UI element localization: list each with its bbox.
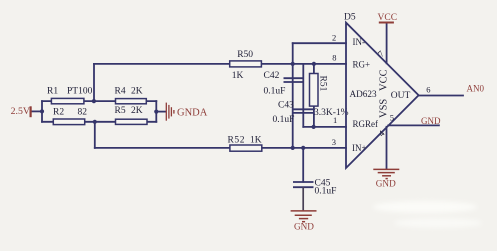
wire VCC stem to pin 7 bbox=[386, 23, 388, 64]
wire bridge left vertical bbox=[41, 101, 43, 122]
svg-text:AN0: AN0 bbox=[467, 84, 485, 94]
power symbol VCC bbox=[378, 13, 398, 23]
svg-text:GND: GND bbox=[376, 179, 396, 189]
svg-text:2: 2 bbox=[332, 32, 336, 42]
capacitor C43 0.1uF bbox=[273, 101, 314, 125]
svg-text:3.3K-1%: 3.3K-1% bbox=[314, 108, 349, 118]
node 2.5V port wire bbox=[31, 110, 42, 112]
node bridge bottom bbox=[93, 120, 97, 124]
wire bridge bottom rail bbox=[42, 121, 156, 123]
op-amp U D5 AD623 bbox=[344, 13, 419, 168]
resistor R51 3.3K-1% bbox=[310, 74, 349, 119]
svg-text:GND: GND bbox=[421, 116, 441, 126]
wire to op-amp pin 1 bbox=[303, 126, 346, 128]
svg-text:3: 3 bbox=[332, 137, 336, 147]
node pin3 C45 junction bbox=[301, 146, 305, 150]
wire C43 lead vertical bbox=[302, 64, 304, 127]
svg-text:GND: GND bbox=[294, 222, 314, 232]
wire C45 top lead bbox=[302, 148, 304, 182]
svg-text:2K: 2K bbox=[131, 106, 143, 116]
wire op-amp pin 5 to GND bbox=[388, 124, 439, 126]
wire R51 top lead bbox=[313, 64, 315, 74]
node 2.5V junction bbox=[40, 109, 44, 113]
ground symbol C45 bbox=[291, 187, 317, 231]
wire op-amp output pin 6 to AN0 bbox=[419, 95, 463, 97]
svg-text:R50: R50 bbox=[237, 50, 253, 60]
svg-text:RGRef: RGRef bbox=[353, 119, 379, 129]
svg-text:0.1uF: 0.1uF bbox=[264, 87, 286, 97]
wire bridge top rail bbox=[42, 100, 156, 102]
svg-text:AD623: AD623 bbox=[350, 89, 377, 99]
svg-text:82: 82 bbox=[78, 108, 88, 118]
resistor R52 1K bbox=[228, 136, 262, 152]
wire GNDA stub bbox=[156, 111, 165, 113]
svg-text:R51: R51 bbox=[318, 76, 328, 92]
junction dots bbox=[40, 62, 316, 150]
svg-text:5: 5 bbox=[390, 113, 394, 123]
svg-text:R1: R1 bbox=[47, 87, 58, 97]
wire pin 2 jog vertical bbox=[292, 43, 294, 64]
wire bridge right vertical bbox=[155, 101, 157, 122]
svg-text:8: 8 bbox=[332, 52, 336, 62]
resistor R4 2K bbox=[115, 87, 147, 104]
svg-text:R4: R4 bbox=[115, 87, 126, 97]
svg-text:D5: D5 bbox=[344, 13, 356, 23]
svg-text:6: 6 bbox=[426, 84, 430, 94]
resistor R1 PT100 bbox=[47, 87, 93, 104]
svg-text:OUT: OUT bbox=[391, 91, 411, 101]
svg-text:PT100: PT100 bbox=[67, 87, 93, 97]
svg-text:2.5V: 2.5V bbox=[11, 106, 30, 117]
wire R51 bottom lead bbox=[313, 106, 315, 127]
svg-text:C43: C43 bbox=[278, 101, 294, 111]
svg-text:R52: R52 bbox=[228, 136, 246, 146]
wire to op-amp pin 2 bbox=[293, 42, 346, 44]
power symbol GNDA bbox=[166, 103, 207, 121]
svg-text:RG+: RG+ bbox=[353, 59, 371, 69]
wire bridge top node up to R50 bbox=[93, 64, 95, 101]
svg-text:R5: R5 bbox=[115, 106, 126, 116]
svg-text:1: 1 bbox=[333, 115, 337, 125]
svg-text:IN-: IN- bbox=[353, 37, 366, 47]
wire R52 net to op-amp pin 3 bbox=[95, 147, 346, 149]
resistor R2 82 bbox=[53, 108, 87, 125]
svg-text:GNDA: GNDA bbox=[177, 108, 208, 119]
svg-text:VSS: VSS bbox=[379, 99, 390, 118]
resistor R5 2K bbox=[115, 106, 148, 124]
svg-text:2K: 2K bbox=[131, 87, 143, 97]
wire C42 lead vertical bbox=[292, 64, 294, 148]
svg-text:VCC: VCC bbox=[378, 69, 389, 91]
faint white smudges (photo artifact) bbox=[373, 201, 482, 228]
node R51 bottom junction bbox=[312, 125, 316, 129]
node pin3 V1 junction bbox=[291, 146, 295, 150]
svg-text:VCC: VCC bbox=[378, 13, 398, 23]
node R51 top junction bbox=[312, 62, 316, 66]
node bridge top bbox=[92, 99, 96, 103]
svg-text:1K: 1K bbox=[232, 71, 244, 81]
svg-text:0.1uF: 0.1uF bbox=[315, 187, 337, 197]
node GNDA junction bbox=[154, 110, 158, 114]
node R50 out junction bbox=[291, 62, 295, 66]
capacitor C45 0.1uF bbox=[293, 178, 336, 196]
capacitor C42 0.1uF bbox=[264, 71, 304, 96]
wire bridge bottom node down to R52 bbox=[94, 122, 96, 148]
wire op-amp pin 4 down bbox=[386, 127, 388, 169]
svg-text:C42: C42 bbox=[264, 71, 280, 81]
svg-text:1K: 1K bbox=[250, 136, 262, 146]
wire R50 net to op-amp pin 8 bbox=[94, 63, 346, 65]
svg-text:IN+: IN+ bbox=[352, 143, 367, 153]
svg-text:R2: R2 bbox=[53, 108, 64, 118]
svg-text:0.1uF: 0.1uF bbox=[273, 115, 295, 125]
ground symbol pin 4 bbox=[373, 169, 399, 188]
resistor R50 1K bbox=[230, 50, 262, 81]
port 2.5V bbox=[11, 106, 31, 117]
